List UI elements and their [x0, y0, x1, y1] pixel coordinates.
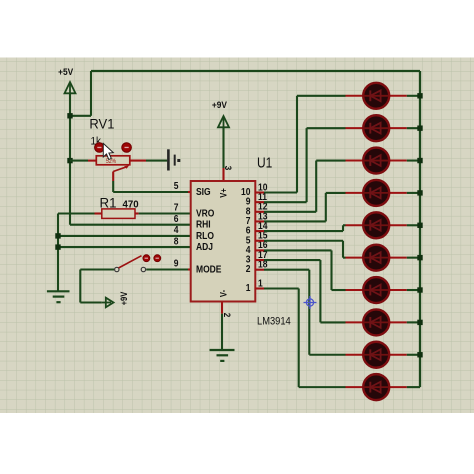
wire to LED D8	[320, 321, 345, 323]
potentiometer RV1 body	[96, 156, 130, 165]
LED D10	[346, 374, 407, 400]
wire +5V to RHI pin 6	[70, 224, 191, 226]
schematic sheet background	[0, 58, 474, 414]
wire pin to vertical D3	[264, 211, 316, 213]
wire pin to vertical D10	[264, 287, 299, 289]
wire vertical D1	[296, 96, 298, 193]
LED D4	[346, 180, 407, 206]
wire R1 left down to ground	[57, 214, 59, 292]
wire vertical D5	[342, 225, 344, 231]
power symbol +9V (up arrow)	[218, 116, 229, 127]
wire LED D5 to rail	[407, 224, 420, 226]
wire SIG to chip pin 5	[113, 191, 188, 193]
pot left pin	[88, 160, 96, 162]
pin 9 stub	[188, 268, 191, 270]
wire up to top bus	[90, 71, 92, 116]
op-amp/driver IC U1 LM3914 body	[191, 181, 256, 302]
junction rail D4	[417, 190, 422, 195]
pin stub L3	[255, 259, 264, 261]
wire switch to MODE	[146, 268, 188, 270]
pin stub L9	[255, 201, 264, 203]
svg-text:V+: V+	[218, 188, 229, 198]
LED D3	[346, 148, 407, 174]
junction +5V/pot	[67, 158, 72, 163]
LED D6	[346, 245, 407, 271]
wire +9V to pin 3	[222, 127, 224, 168]
wire to LED D2	[307, 127, 346, 129]
wire switch left	[80, 268, 114, 270]
wire to LED D6	[343, 257, 346, 259]
wire LED D6 to rail	[407, 257, 420, 259]
wire to LED D5	[343, 224, 346, 226]
svg-text:+9V: +9V	[118, 291, 129, 305]
junction rail D7	[417, 287, 422, 292]
RV1 wiper arrow	[113, 167, 126, 172]
junction ADJ/ground rail	[55, 244, 60, 249]
svg-text:U1: U1	[257, 154, 272, 171]
wire +5V vertical rail left	[69, 93, 71, 224]
wire to LED D1	[297, 95, 346, 97]
wiper pin down	[112, 172, 114, 182]
wire ADJ pin 8 to ground rail	[58, 246, 191, 248]
wire pin to vertical D2	[264, 201, 307, 203]
pin 3 stub	[222, 168, 224, 181]
svg-text:VRO: VRO	[196, 208, 214, 219]
wire LED D10 to rail	[407, 386, 420, 388]
LED D5	[346, 212, 407, 238]
wire R1 left	[58, 212, 95, 214]
wire pin to vertical D5	[264, 230, 343, 232]
svg-text:RLO: RLO	[196, 230, 214, 241]
wire pin 2 to ground	[221, 314, 223, 350]
svg-text:1: 1	[246, 282, 251, 293]
wire LED D3 to rail	[407, 159, 420, 161]
LED D7	[346, 277, 407, 303]
mouse cursor	[103, 143, 113, 159]
pin stub L4	[255, 249, 264, 251]
junction RLO/ground rail	[55, 233, 60, 238]
svg-text:SIG: SIG	[196, 186, 211, 197]
pin stub L8	[255, 211, 264, 213]
svg-text:ADJ: ADJ	[196, 241, 213, 252]
svg-text:2: 2	[246, 264, 251, 275]
ground (left)	[47, 290, 70, 292]
svg-text:4: 4	[174, 224, 179, 235]
svg-text:+5V: +5V	[58, 66, 73, 77]
svg-text:+9V: +9V	[212, 100, 227, 111]
wire pin to vertical D1	[264, 191, 297, 193]
power symbol +9V (right arrow, lower left)	[106, 298, 114, 308]
wire to LED D10	[299, 386, 346, 388]
pin 5 stub	[188, 191, 191, 193]
LED D2	[346, 115, 407, 141]
wire to LED D7	[332, 289, 346, 291]
R1 left pin	[95, 212, 102, 214]
ground (chip)	[210, 349, 235, 351]
switch toggle buttons	[143, 255, 150, 262]
wire wiper to SIG row	[112, 181, 114, 192]
svg-text:9: 9	[174, 258, 179, 269]
junction rail D1	[417, 93, 422, 98]
wire to LED D4	[326, 192, 346, 194]
svg-text:V-: V-	[218, 290, 229, 297]
svg-text:7: 7	[174, 202, 179, 213]
wire vertical D3	[315, 161, 317, 212]
pot right pin	[130, 160, 146, 162]
wire LED D8 to rail	[407, 321, 420, 323]
wire RLO pin 4 to ground rail	[58, 235, 191, 237]
wire vertical D4	[325, 193, 327, 222]
R1 right pin	[135, 212, 139, 214]
wire vertical D9	[308, 270, 310, 355]
wire to +9V symbol	[80, 301, 102, 303]
junction rail D9	[417, 352, 422, 357]
wire LED D1 to rail	[407, 95, 420, 97]
pin 2 stub	[221, 302, 223, 314]
svg-text:MODE: MODE	[196, 264, 221, 275]
junction +5V/branch	[67, 113, 72, 118]
wire top bus to LED rail	[91, 70, 420, 72]
svg-text:2: 2	[222, 313, 233, 318]
wire vertical D10	[298, 289, 300, 388]
RV1 adjust buttons	[95, 143, 105, 153]
wire pin to vertical D7	[264, 249, 332, 251]
svg-text:3: 3	[223, 166, 234, 171]
wire pot left	[70, 160, 88, 162]
pin stub L10	[255, 191, 264, 193]
power symbol +5V (up arrow)	[65, 82, 76, 93]
junction rail D3	[417, 158, 422, 163]
wire LED D7 to rail	[407, 289, 420, 291]
pin stub L7	[255, 220, 264, 222]
wire vertical D8	[319, 260, 321, 322]
junction rail D2	[417, 125, 422, 130]
wire node A branch right	[70, 115, 91, 117]
pin stub L6	[255, 230, 264, 232]
wire pin to vertical D6	[264, 240, 343, 242]
svg-text:RV1: RV1	[89, 116, 114, 132]
battery cell symbol at RV1 right	[167, 149, 170, 170]
pin stub L2	[255, 269, 264, 271]
junction rail D6	[417, 255, 422, 260]
wire LED D9 to rail	[407, 354, 420, 356]
wire to LED D3	[316, 159, 345, 161]
pin stub L5	[255, 240, 264, 242]
svg-text:6: 6	[174, 213, 179, 224]
LED D8	[346, 309, 407, 335]
wire pot right to terminator	[146, 160, 167, 162]
wire LED anode rail vertical	[419, 71, 421, 387]
svg-text:1: 1	[258, 278, 263, 289]
svg-text:5: 5	[174, 181, 179, 192]
wire vertical D7	[330, 250, 332, 290]
pin stub L1	[255, 287, 264, 289]
junction rail D5	[417, 223, 422, 228]
wire pin to vertical D8	[264, 259, 320, 261]
wire vertical D2	[306, 128, 308, 202]
LED D9	[346, 342, 407, 368]
wire vertical D6	[342, 241, 344, 258]
switch lever	[119, 256, 142, 268]
wire LED D2 to rail	[407, 127, 420, 129]
resistor R1 body	[102, 209, 135, 219]
wire R1 to VRO pin 7	[139, 212, 191, 214]
origin marker	[304, 296, 317, 309]
switch SW contacts	[115, 267, 119, 271]
junction rail D8	[417, 320, 422, 325]
wire to LED D9	[309, 354, 345, 356]
svg-text:LM3914: LM3914	[257, 316, 291, 328]
svg-text:52%: 52%	[106, 159, 116, 165]
wire pin to vertical D4	[264, 220, 326, 222]
wire pin to vertical D9	[264, 269, 309, 271]
svg-text:8: 8	[174, 236, 179, 247]
LED D1	[346, 83, 407, 109]
wire down to +9V	[79, 270, 81, 303]
svg-text:RHI: RHI	[196, 219, 211, 230]
wire LED D4 to rail	[407, 192, 420, 194]
